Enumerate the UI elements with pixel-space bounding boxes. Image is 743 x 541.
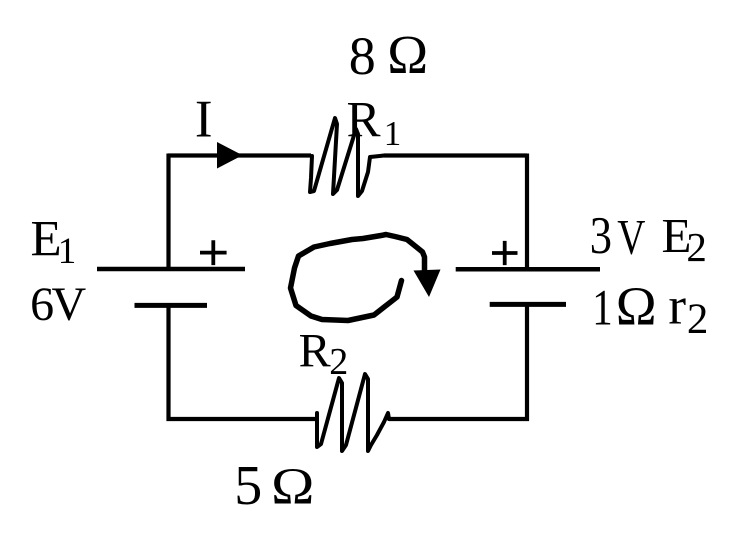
svg-text:2: 2 xyxy=(329,341,348,383)
value 5 ohm xyxy=(234,455,314,517)
battery E1 long plate xyxy=(97,267,245,272)
svg-text:R: R xyxy=(347,93,381,149)
wire left upper segment xyxy=(166,154,170,270)
svg-text:8: 8 xyxy=(349,26,376,86)
wire right upper segment xyxy=(525,154,529,270)
svg-text:5: 5 xyxy=(234,455,262,517)
svg-text:V: V xyxy=(52,278,87,331)
svg-text:R: R xyxy=(299,325,331,378)
current arrow I xyxy=(217,142,243,169)
plus sign E1 xyxy=(200,240,227,265)
battery E2 long plate xyxy=(456,267,600,272)
value 8 ohm xyxy=(349,24,428,86)
battery E1 short plate xyxy=(135,303,208,308)
label R1 xyxy=(347,93,402,154)
svg-text:Ω: Ω xyxy=(616,276,657,337)
loop direction arrow (KVL clockwise) xyxy=(291,235,441,321)
svg-text:2: 2 xyxy=(687,296,709,343)
svg-text:Ω: Ω xyxy=(271,457,314,514)
resistor R1 (hand-drawn zigzag) xyxy=(310,118,384,196)
battery E2 short plate xyxy=(490,302,566,307)
svg-text:1: 1 xyxy=(384,114,402,153)
label 3V E2 xyxy=(590,205,707,270)
svg-text:V: V xyxy=(617,209,645,265)
svg-text:r: r xyxy=(668,278,686,336)
svg-text:Ω: Ω xyxy=(387,24,428,85)
value 6V xyxy=(30,278,86,331)
wire left lower segment xyxy=(169,305,317,419)
label 1 ohm r2 xyxy=(592,276,708,344)
svg-text:I: I xyxy=(195,91,213,149)
wire top-left segment xyxy=(168,153,311,157)
resistor R2 (hand-drawn zigzag) xyxy=(317,374,389,451)
svg-text:3: 3 xyxy=(590,205,612,265)
label E1 xyxy=(31,212,77,273)
svg-text:2: 2 xyxy=(686,224,707,270)
plus sign E2 xyxy=(492,241,518,265)
wire right lower segment xyxy=(389,305,527,419)
wire top-right segment xyxy=(384,153,527,157)
label I xyxy=(195,91,213,149)
svg-text:6: 6 xyxy=(30,278,54,331)
svg-text:1: 1 xyxy=(58,231,76,272)
svg-text:1: 1 xyxy=(592,279,612,335)
label R2 xyxy=(299,325,349,383)
